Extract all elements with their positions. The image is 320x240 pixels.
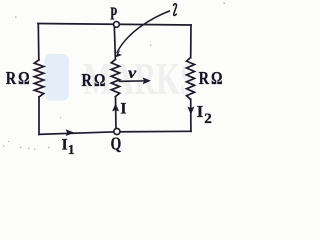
- svg-text:v: v: [128, 65, 137, 82]
- svg-text:Q: Q: [111, 134, 122, 154]
- svg-text:2: 2: [204, 111, 212, 127]
- svg-text:I: I: [197, 102, 204, 121]
- svg-text:I: I: [120, 101, 126, 118]
- svg-text:I: I: [62, 136, 68, 153]
- svg-text:R: R: [82, 70, 93, 90]
- svg-text:1: 1: [68, 142, 75, 157]
- svg-text:Ω: Ω: [94, 70, 105, 90]
- svg-text:Ω: Ω: [18, 68, 29, 88]
- svg-text:R: R: [199, 68, 210, 88]
- svg-text:P: P: [110, 3, 117, 23]
- svg-text:R: R: [6, 68, 17, 88]
- svg-text:Ω: Ω: [211, 68, 222, 88]
